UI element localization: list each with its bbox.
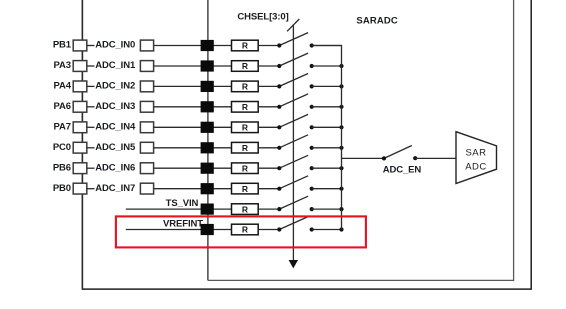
svg-text:VREFINT: VREFINT [163, 218, 203, 229]
pin chain vertical line (port pads bus) [81, 0, 83, 289]
wire switch to analog bus row 7 [312, 167, 342, 169]
resistor R row 4 [232, 102, 259, 113]
wire resistor to switch row 10 [258, 229, 279, 231]
wire resistor to switch row 4 [258, 106, 279, 108]
terminal box ADC_IN1 [140, 61, 153, 72]
sampling capacitor node (black square) row 6 [201, 142, 214, 153]
channel switch row 3 [277, 74, 314, 89]
wire ADC_IN3 box to sampling node [154, 106, 232, 108]
bus junction row 3 [339, 84, 343, 88]
svg-text:ADC_IN1: ADC_IN1 [95, 60, 136, 71]
ADC_EN switch [382, 146, 417, 161]
wire ADC_IN7 box to sampling node [154, 188, 232, 190]
resistor R row 6 [232, 142, 259, 153]
wire switch to analog bus row 4 [312, 106, 342, 108]
svg-text:R: R [242, 102, 248, 112]
wire ADC_IN4 box to sampling node [154, 126, 232, 128]
wire switch to analog bus row 3 [312, 85, 342, 87]
sampling capacitor node (black square) row 9 [201, 204, 214, 215]
svg-text:R: R [242, 143, 248, 153]
resistor R row 7 [232, 163, 259, 174]
resistor R row 10 [232, 224, 259, 235]
svg-text:R: R [242, 123, 248, 133]
channel switch row 4 [277, 94, 314, 109]
wire resistor to switch row 3 [258, 85, 279, 87]
resistor R row 3 [232, 81, 259, 92]
sampling capacitor node (black square) row 1 [201, 40, 214, 51]
ADC module boundary (inner box) bottom and right edges [208, 0, 514, 280]
svg-text:CHSEL[3:0]: CHSEL[3:0] [237, 11, 288, 22]
svg-text:PB1: PB1 [53, 40, 72, 51]
resistor R row 2 [232, 61, 259, 72]
svg-text:ADC_IN3: ADC_IN3 [95, 101, 135, 112]
terminal box ADC_IN2 [140, 81, 153, 92]
ADC module boundary (inner box) left edge / sampling bus line [207, 0, 209, 280]
wire resistor to switch row 6 [258, 147, 279, 149]
svg-text:SAR: SAR [465, 148, 486, 159]
pin pad PB1 [73, 40, 87, 51]
resistor R row 1 [232, 40, 259, 51]
sampling capacitor node (black square) row 5 [201, 122, 214, 133]
sampling capacitor node (black square) row 7 [201, 163, 214, 174]
channel switch row 8 [277, 176, 314, 191]
pin pad PA7 [73, 122, 87, 133]
pin pad PA3 [73, 61, 87, 72]
terminal box ADC_IN3 [140, 101, 153, 112]
svg-text:PC0: PC0 [53, 142, 71, 153]
wire resistor to switch row 1 [258, 45, 279, 47]
wire switch to analog bus row 10 [312, 229, 342, 231]
chip boundary (outer box) [82, 0, 531, 289]
wire PB1 pad to ADC_IN0 label [87, 45, 95, 47]
svg-text:PA7: PA7 [54, 121, 71, 132]
channel switch row 1 [277, 33, 314, 48]
resistor R row 9 [232, 204, 259, 215]
sampling capacitor node (black square) row 4 [201, 101, 214, 112]
svg-text:ADC_IN5: ADC_IN5 [95, 142, 136, 153]
svg-text:ADC_IN6: ADC_IN6 [95, 162, 135, 173]
wire ADC_IN6 box to sampling node [154, 167, 232, 169]
sampling capacitor node (black square) row 10 [201, 224, 214, 235]
channel switch row 5 [277, 114, 314, 129]
channel switch row 9 [277, 196, 314, 211]
svg-text:ADC_IN0: ADC_IN0 [95, 40, 135, 51]
bus junction row 2 [339, 64, 343, 68]
wire switch to analog bus row 9 [312, 208, 342, 210]
wire ADC_EN switch to SAR ADC [415, 157, 456, 159]
wire PB6 pad to ADC_IN6 label [87, 167, 95, 169]
svg-text:R: R [242, 225, 248, 235]
CHSEL bus width tick (slash) [287, 19, 299, 31]
bus junction row 8 [339, 187, 343, 191]
bus junction row 10 [339, 227, 343, 231]
svg-text:PA4: PA4 [54, 81, 72, 92]
svg-text:PA6: PA6 [54, 101, 71, 112]
svg-text:R: R [242, 82, 248, 92]
svg-text:ADC_IN7: ADC_IN7 [95, 183, 135, 194]
bus junction row 7 [339, 166, 343, 170]
wire switch to analog bus row 1 [312, 45, 342, 47]
svg-text:TS_VIN: TS_VIN [166, 198, 199, 209]
wire ADC_IN5 box to sampling node [154, 147, 232, 149]
pin pad PA4 [73, 81, 87, 92]
terminal box ADC_IN7 [140, 183, 153, 194]
svg-text:ADC: ADC [465, 161, 487, 172]
wire PC0 pad to ADC_IN5 label [87, 147, 95, 149]
CHSEL control line [292, 25, 294, 261]
wire PA3 pad to ADC_IN1 label [87, 65, 95, 67]
highlight box around VREFINT channel (red) [116, 216, 366, 247]
terminal box ADC_IN6 [140, 163, 153, 174]
wire PA4 pad to ADC_IN2 label [87, 85, 95, 87]
terminal box ADC_IN4 [140, 122, 153, 133]
pin pad PB0 [73, 183, 87, 194]
wire resistor to switch row 8 [258, 188, 279, 190]
wire ADC_IN0 box to sampling node [154, 45, 232, 47]
wire PA7 pad to ADC_IN4 label [87, 126, 95, 128]
bus junction row 6 [339, 146, 343, 150]
resistor R row 5 [232, 122, 259, 133]
pin pad PA6 [73, 101, 87, 112]
sampling capacitor node (black square) row 2 [201, 60, 214, 71]
wire resistor to switch row 9 [258, 208, 279, 210]
channel switch row 10 [277, 217, 314, 232]
bus junction row 4 [339, 105, 343, 109]
svg-text:ADC_IN4: ADC_IN4 [95, 121, 136, 132]
resistor R row 8 [232, 183, 259, 194]
sampling capacitor node (black square) row 8 [201, 183, 214, 194]
svg-text:R: R [242, 41, 248, 51]
bus junction row 5 [339, 125, 343, 129]
svg-text:ADC_IN2: ADC_IN2 [95, 81, 135, 92]
pin pad PB6 [73, 163, 87, 174]
analog bus vertical line [312, 46, 342, 230]
CHSEL line arrowhead [289, 260, 298, 268]
svg-text:PB0: PB0 [53, 183, 71, 194]
svg-text:R: R [242, 163, 248, 173]
wire switch to analog bus row 8 [312, 188, 342, 190]
wire PA6 pad to ADC_IN3 label [87, 106, 95, 108]
sampling capacitor node (black square) row 3 [201, 81, 214, 92]
SAR ADC converter (trapezoid) [456, 132, 497, 184]
svg-text:PA3: PA3 [54, 60, 71, 71]
channel switch row 6 [277, 135, 314, 150]
svg-text:R: R [242, 204, 248, 214]
wire switch to analog bus row 2 [312, 65, 342, 67]
wire resistor to switch row 2 [258, 65, 279, 67]
svg-text:ADC_EN: ADC_EN [383, 164, 422, 175]
wire resistor to switch row 7 [258, 167, 279, 169]
bus junction row 9 [339, 207, 343, 211]
channel switch row 7 [277, 155, 314, 170]
svg-text:R: R [242, 61, 248, 71]
svg-text:R: R [242, 184, 248, 194]
terminal box ADC_IN5 [140, 142, 153, 153]
wire resistor to switch row 5 [258, 126, 279, 128]
terminal box ADC_IN0 [140, 40, 153, 51]
wire switch to analog bus row 6 [312, 147, 342, 149]
wire analog bus to ADC_EN switch [342, 157, 385, 159]
wire ADC_IN1 box to sampling node [154, 65, 232, 67]
svg-text:SARADC: SARADC [356, 16, 398, 27]
wire PB0 pad to ADC_IN7 label [87, 188, 95, 190]
pin pad PC0 [73, 142, 87, 153]
channel switch row 2 [277, 53, 314, 68]
svg-text:PB6: PB6 [53, 162, 71, 173]
wire TS_VIN to sampling node [126, 208, 232, 210]
wire VREFINT to sampling node [126, 229, 232, 231]
wire switch to analog bus row 5 [312, 126, 342, 128]
wire ADC_IN2 box to sampling node [154, 85, 232, 87]
